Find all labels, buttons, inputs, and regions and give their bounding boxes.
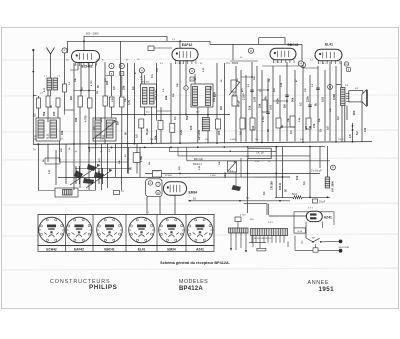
band coil L6 L7 [93, 118, 116, 141]
svg-text:B.P.: B.P. [355, 88, 359, 90]
wire jog [44, 158, 46, 164]
svg-text:1M: 1M [69, 96, 73, 100]
band switch wiper [70, 165, 100, 185]
socket panel [38, 215, 214, 246]
svg-text:Schéma général du récepteur BP: Schéma général du récepteur BP412A. [160, 261, 230, 265]
wire [240, 70, 242, 142]
wire [77, 63, 79, 70]
svg-text:25k: 25k [74, 117, 78, 122]
tube ECH42 [72, 51, 100, 63]
svg-text:50k: 50k [154, 135, 158, 140]
wire [272, 66, 274, 141]
svg-text:BP412A: BP412A [179, 286, 203, 292]
wire [73, 63, 75, 144]
svg-text:AZ41: AZ41 [324, 215, 332, 219]
svg-text:0,5M: 0,5M [332, 94, 336, 100]
svg-text:50 pF: 50 pF [145, 128, 149, 135]
wire h [74, 90, 96, 92]
svg-text:800: 800 [352, 110, 356, 115]
svg-text:ECH42: ECH42 [46, 248, 57, 252]
connector strip [257, 248, 266, 251]
wire [73, 144, 75, 190]
svg-text:1M: 1M [304, 126, 308, 130]
wire [64, 92, 66, 110]
resistor R5b [120, 97, 125, 107]
wire [47, 144, 49, 162]
svg-text:B 18: B 18 [297, 231, 302, 233]
svg-text:1 2 3 4 5: 1 2 3 4 5 [318, 63, 327, 65]
wire ticks [64, 110, 66, 115]
socket divider [185, 215, 187, 252]
small component [114, 191, 120, 195]
wire [305, 225, 307, 238]
wire [146, 197, 148, 215]
svg-text:500k 0,1: 500k 0,1 [193, 164, 203, 166]
wire [245, 75, 247, 142]
pin square b [120, 72, 124, 76]
wire [104, 62, 106, 96]
wire [335, 66, 337, 141]
diode D1 [228, 161, 237, 172]
wire [33, 95, 36, 97]
capacitor C7 [250, 89, 254, 91]
svg-text:50k: 50k [291, 97, 295, 102]
svg-text:5,2: 5,2 [355, 131, 359, 135]
plug upper [339, 240, 343, 244]
svg-text:220k: 220k [306, 96, 310, 102]
tube EM34 [163, 182, 186, 196]
svg-text:452 kc/s: 452 kc/s [154, 89, 158, 100]
svg-text:1951: 1951 [319, 286, 335, 293]
svg-text:T.A. 28: T.A. 28 [255, 151, 264, 155]
wire [244, 203, 267, 205]
svg-text:10k: 10k [295, 175, 299, 180]
capacitor C16a [313, 199, 318, 203]
svg-text:0,5: 0,5 [135, 134, 139, 138]
svg-text:25 000: 25 000 [165, 175, 172, 177]
wire [111, 107, 113, 115]
junction [88, 168, 90, 170]
wire [324, 70, 326, 141]
wire [144, 107, 146, 115]
tube socket EM34 [159, 217, 185, 243]
svg-text:5 Y 3: 5 Y 3 [308, 208, 314, 210]
node M [298, 61, 303, 66]
wire [179, 61, 181, 143]
wire [361, 102, 363, 142]
resistor R9 [216, 119, 221, 129]
svg-text:0,1: 0,1 [299, 102, 303, 106]
svg-text:h 1: h 1 [150, 74, 154, 78]
svg-text:1 1/2: 1 1/2 [119, 191, 125, 193]
wire [121, 144, 123, 191]
socket divider [156, 215, 158, 252]
wire h band [75, 168, 130, 170]
wire [59, 141, 61, 162]
resistor R3 [78, 96, 83, 107]
wire [79, 107, 81, 144]
socket divider [92, 215, 94, 252]
svg-text:0,1: 0,1 [302, 181, 306, 185]
wire [341, 106, 343, 142]
svg-text:16 μF: 16 μF [319, 201, 326, 204]
wire [126, 144, 128, 174]
svg-text:220: 220 [52, 111, 56, 116]
socket divider [65, 215, 67, 252]
wire [269, 215, 307, 217]
svg-text:EBC41: EBC41 [104, 248, 115, 252]
tube pins EL41 [318, 61, 320, 64]
svg-text:3,2: 3,2 [336, 116, 340, 120]
wire [327, 146, 329, 177]
band coil L4 L5 [36, 118, 60, 141]
wire [294, 70, 296, 141]
resistor R16 [293, 196, 303, 199]
svg-text:1 2 3 4 5: 1 2 3 4 5 [74, 65, 83, 67]
band switch wiper 2 [86, 170, 112, 188]
node G [344, 62, 348, 66]
filter choke L8 [325, 177, 330, 188]
svg-text:L.1: L.1 [42, 88, 46, 92]
output transformer T3 [341, 88, 345, 106]
svg-text:10k: 10k [248, 105, 252, 110]
node N [328, 85, 333, 90]
socket divider [125, 215, 127, 252]
resistor R10 [232, 96, 237, 106]
svg-text:CR 185: CR 185 [270, 181, 274, 190]
svg-text:0,1: 0,1 [131, 86, 135, 90]
resistor R12 [250, 118, 255, 130]
tube socket AZ41 [187, 217, 213, 243]
svg-text:AZ41: AZ41 [196, 248, 204, 252]
IF transformer T4 [141, 84, 157, 107]
svg-text:50k: 50k [185, 115, 189, 120]
connector leads [230, 233, 232, 248]
svg-text:1 2 3 4 5: 1 2 3 4 5 [175, 63, 184, 65]
node E [300, 62, 305, 67]
svg-text:300: 300 [217, 130, 221, 135]
svg-text:S.F. 1800: S.F. 1800 [331, 180, 335, 192]
antenna coil L1 [47, 78, 52, 90]
wire top AVC [84, 35, 167, 37]
junction dots bus [88, 147, 90, 149]
svg-text:2 200: 2 200 [242, 93, 246, 100]
svg-text:1M: 1M [149, 162, 151, 165]
IF transformer T5 [191, 84, 213, 107]
wire [317, 66, 319, 141]
svg-text:0,5: 0,5 [112, 86, 116, 90]
wire jog over EBC41 [258, 38, 260, 45]
svg-text:0,05: 0,05 [253, 96, 257, 102]
wire [309, 146, 311, 197]
wire [88, 63, 90, 98]
wire [106, 144, 108, 188]
wire [240, 158, 242, 177]
resistor R15 [133, 153, 140, 163]
variable capacitor CV2 [98, 168, 100, 184]
svg-text:4 700: 4 700 [84, 115, 88, 122]
resistor R8 [170, 123, 175, 132]
svg-text:50k: 50k [42, 111, 46, 116]
svg-text:2,5: 2,5 [348, 134, 352, 138]
band switch contact 2 [74, 170, 83, 179]
wire [256, 66, 258, 142]
wire [101, 144, 103, 190]
EM34 terminal box [146, 179, 162, 197]
socket label strip [38, 246, 214, 252]
wire [352, 123, 354, 142]
capacitor C5 [276, 118, 281, 128]
wire [65, 144, 67, 184]
wire [194, 74, 196, 84]
tube socket EAF42 [66, 217, 92, 243]
wire [88, 144, 90, 190]
band contact 5 [232, 185, 242, 191]
svg-text:4 700: 4 700 [240, 215, 246, 217]
wire [210, 43, 302, 45]
svg-text:SECTEUR: SECTEUR [339, 247, 350, 249]
junction [251, 76, 253, 78]
svg-text:P: P [332, 166, 334, 170]
svg-text:1M: 1M [219, 106, 223, 110]
wire [340, 61, 342, 88]
tube EL41 [315, 49, 342, 61]
power transformer primary [251, 229, 288, 236]
wire top cap EAF42 [166, 36, 168, 41]
heater loop wire [294, 211, 334, 213]
wire stair 3 [187, 160, 330, 162]
wire [140, 128, 142, 144]
wire [209, 41, 211, 44]
wire [80, 63, 82, 96]
svg-text:600 - 2000: 600 - 2000 [86, 32, 99, 36]
wire [287, 242, 289, 248]
wire bus mid [112, 114, 231, 116]
wire [267, 78, 269, 142]
tube EBC41 [270, 48, 296, 60]
svg-text:0,1: 0,1 [262, 191, 266, 195]
svg-text:0,1 - 50000: 0,1 - 50000 [227, 63, 239, 65]
wire [127, 147, 129, 174]
wire [144, 75, 146, 84]
svg-text:F: F [64, 49, 66, 53]
svg-text:PHILIPS: PHILIPS [89, 284, 117, 291]
wire [261, 70, 263, 142]
svg-text:3 Ω: 3 Ω [363, 128, 367, 132]
svg-text:100: 100 [189, 125, 193, 130]
wire [156, 63, 158, 121]
svg-text:50 000: 50 000 [153, 171, 160, 173]
svg-text:EL41: EL41 [325, 43, 333, 47]
svg-text:GER: GER [223, 172, 227, 178]
wire [120, 41, 122, 97]
wire drop [232, 44, 234, 60]
transformer legs [251, 236, 253, 243]
wire stair 1 [170, 151, 277, 153]
wire [79, 144, 81, 188]
svg-text:h: h [160, 121, 161, 123]
svg-text:2,2k: 2,2k [179, 129, 183, 135]
svg-text:1M: 1M [269, 79, 271, 82]
pin square a [110, 72, 114, 76]
svg-text:MODELES: MODELES [179, 279, 208, 285]
resistor R4 [88, 98, 93, 108]
wire [95, 144, 97, 191]
resistor R17 [153, 171, 162, 178]
wire [247, 159, 249, 213]
coil L3 [202, 118, 209, 131]
node D [248, 48, 253, 53]
band switch contact 1 [87, 164, 96, 171]
svg-text:4 700: 4 700 [90, 80, 93, 86]
svg-text:EM34: EM34 [189, 191, 198, 195]
wire [329, 62, 331, 141]
svg-text:1M: 1M [283, 104, 287, 108]
tube AZ41 [306, 211, 322, 221]
wire [2, 58, 398, 270]
wire [301, 241, 303, 245]
wire [216, 63, 218, 119]
ballast B18 [294, 228, 306, 233]
node H [139, 68, 144, 73]
wire h 177 [58, 176, 290, 179]
capacitor C20 [148, 46, 154, 51]
wire [105, 75, 109, 77]
wire [235, 66, 237, 142]
svg-text:22k: 22k [60, 130, 64, 135]
svg-text:EAF42: EAF42 [74, 248, 84, 252]
resistor R5 [110, 97, 115, 107]
svg-text:2 x 16 μF: 2 x 16 μF [311, 169, 322, 173]
wire h3 [39, 190, 56, 192]
svg-text:0,1: 0,1 [173, 116, 177, 120]
wire [115, 144, 117, 177]
svg-text:160 Ω: 160 Ω [278, 183, 282, 190]
connector CN1 [235, 217, 241, 222]
tube pins ECH42 [75, 62, 77, 65]
svg-text:1 000: 1 000 [210, 175, 216, 177]
resistor R7 [158, 121, 163, 130]
svg-text:0,5: 0,5 [326, 126, 330, 130]
svg-text:0,1: 0,1 [289, 130, 293, 134]
tube pins EBC41 [273, 60, 275, 63]
wire [67, 41, 69, 53]
svg-text:1M: 1M [97, 91, 99, 94]
wire h [60, 161, 129, 163]
wire top HT [68, 40, 211, 42]
padder C9 [63, 190, 73, 196]
wire h [241, 76, 252, 78]
svg-text:EAF42: EAF42 [182, 43, 193, 47]
svg-text:0,5: 0,5 [239, 131, 243, 135]
capacitor C1 [56, 98, 60, 107]
node 3 [189, 68, 194, 73]
bus second [88, 146, 325, 148]
capacitor C2 [63, 84, 67, 92]
svg-text:1M: 1M [100, 139, 103, 141]
wire [32, 95, 34, 98]
antenna [47, 48, 51, 55]
tube EAF42 [172, 48, 198, 60]
wire [126, 63, 128, 144]
svg-text:25k: 25k [258, 103, 262, 108]
resistor R11 [240, 118, 245, 129]
fuse F1 [313, 248, 318, 252]
variable capacitor CV1 [75, 166, 77, 184]
wire [170, 63, 172, 123]
svg-text:1 2 3 4 5: 1 2 3 4 5 [273, 62, 282, 64]
wire [282, 147, 284, 199]
wire [302, 66, 304, 141]
svg-text:4 700: 4 700 [140, 156, 143, 162]
svg-text:G.O.: G.O. [34, 134, 38, 140]
svg-text:G.O.: G.O. [46, 133, 50, 139]
svg-text:4,7k: 4,7k [127, 99, 131, 105]
wire [275, 147, 277, 199]
tube socket EBC41 [97, 217, 123, 243]
wire [141, 73, 143, 84]
wire [309, 75, 311, 141]
svg-text:25k: 25k [122, 85, 126, 90]
junction dots [37, 143, 39, 145]
wire [279, 75, 281, 141]
wire stair stub [169, 147, 171, 152]
capacitor C6 [290, 116, 295, 127]
box TA28 [248, 148, 271, 158]
band switch contact 3 [94, 172, 104, 179]
wire [251, 62, 253, 142]
svg-text:220: 220 [251, 125, 255, 130]
wire [259, 243, 261, 249]
resistor R14 [306, 118, 311, 129]
svg-text:2,4 V: 2,4 V [268, 222, 273, 224]
resistor R13 [262, 100, 267, 112]
wire [275, 196, 293, 198]
svg-text:ECH42: ECH42 [82, 65, 93, 69]
wire h 173 [145, 173, 320, 175]
tube pins EAF42 [175, 61, 177, 64]
svg-text:H: H [141, 68, 143, 72]
svg-text:4 700: 4 700 [262, 116, 265, 122]
svg-text:h 2: h 2 [209, 86, 213, 90]
svg-text:INT.: INT. [312, 237, 316, 239]
svg-text:0,1: 0,1 [33, 113, 37, 117]
tube socket EL41 [129, 217, 155, 243]
resistor R2 [46, 96, 50, 107]
wire top cap ECH42 [83, 36, 85, 50]
wire h [157, 110, 172, 112]
trimmer box [55, 188, 78, 197]
capacitor C3 [103, 96, 108, 106]
svg-text:EM34: EM34 [167, 248, 176, 252]
potentiometer P1 [231, 80, 236, 92]
wire h [230, 60, 258, 62]
node L [184, 86, 188, 90]
svg-text:47k: 47k [312, 123, 316, 128]
band switch contact 4 [83, 178, 94, 184]
wire [38, 144, 40, 190]
wire [223, 63, 225, 143]
terminal A1 [32, 50, 34, 144]
speaker LS [349, 91, 363, 102]
plug lower [339, 249, 343, 253]
wire B1 [188, 200, 290, 202]
svg-text:22k: 22k [164, 95, 168, 100]
switch S1 [312, 241, 314, 243]
svg-text:0 110 130 160 220 245: 0 110 130 160 220 245 [252, 238, 271, 240]
wire [319, 146, 321, 168]
svg-text:0,01: 0,01 [269, 104, 273, 110]
